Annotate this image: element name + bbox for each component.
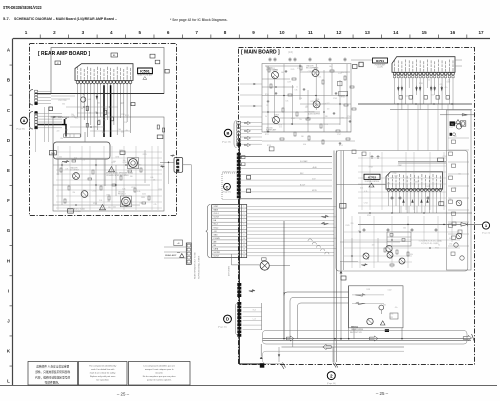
- svg-text:C712: C712: [364, 202, 368, 204]
- svg-text:47u: 47u: [395, 307, 398, 309]
- svg-text:4: 4: [244, 217, 245, 219]
- transistor spec labels rear: [70, 167, 126, 196]
- junction dots on bundle: [87, 93, 121, 94]
- connector CN709 (black pins): [237, 302, 241, 337]
- relay RY701 drive circuit: [348, 286, 403, 332]
- svg-text:10k: 10k: [454, 188, 457, 190]
- warning triangle small: [180, 254, 184, 258]
- svg-text:0.01: 0.01: [454, 136, 457, 138]
- jumper label JW8: [68, 209, 74, 213]
- junction dots amp section: [267, 65, 347, 124]
- svg-text:[ MAIN BOARD ]: [ MAIN BOARD ]: [241, 50, 280, 56]
- label (Page 26) under node B: [222, 142, 231, 144]
- svg-text:330: 330: [139, 164, 142, 166]
- wires in center section: [344, 152, 460, 268]
- svg-text:330: 330: [105, 109, 108, 111]
- open arrow on bottom bus 2: [286, 336, 293, 341]
- svg-text:C741: C741: [58, 100, 62, 102]
- svg-text:22k: 22k: [72, 192, 75, 194]
- svg-text:0.022: 0.022: [338, 73, 342, 75]
- svg-text:STBY: STBY: [214, 206, 219, 208]
- svg-text:6.8k: 6.8k: [383, 304, 386, 306]
- svg-text:22k: 22k: [266, 105, 269, 107]
- svg-text:2.2k: 2.2k: [124, 122, 127, 124]
- diode D704 on H4: [461, 223, 468, 227]
- svg-text:6.8k: 6.8k: [303, 144, 306, 146]
- bus lines above IC702: [398, 162, 446, 164]
- transistor Q701: [272, 70, 279, 79]
- svg-text:1k: 1k: [296, 87, 298, 89]
- electrolytic capacitors under IC701: [397, 86, 443, 92]
- wire: rear amp feed lines: [164, 247, 186, 258]
- svg-text:8: 8: [244, 231, 245, 233]
- signal arrow on bus 1: [321, 215, 328, 218]
- svg-text:代替，维修时请按规定型号的: 代替，维修时请按规定型号的: [35, 376, 70, 380]
- svg-text:7: 7: [195, 30, 198, 35]
- jumper label JW11: [150, 54, 155, 58]
- svg-text:REC OUT 12V: REC OUT 12V: [350, 332, 363, 334]
- value labels rear amp lower: [65, 157, 156, 209]
- wire mesh rear amp lower: [56, 146, 162, 210]
- svg-text:100: 100: [65, 130, 68, 132]
- safety note box (French): [129, 362, 191, 386]
- transistor Q714: [399, 258, 405, 264]
- IC701 reference label box: [373, 58, 388, 69]
- svg-text:100: 100: [98, 119, 101, 121]
- wire relay to bottom bus: [354, 328, 402, 339]
- bottom section strip 1: [263, 331, 468, 345]
- net labels on upper lines: [300, 160, 318, 192]
- svg-text:L: L: [7, 379, 10, 384]
- transistor Q713: [387, 252, 393, 258]
- black pin mark: [450, 133, 456, 136]
- note text 2: [67, 209, 85, 214]
- IC501 reference label box: [137, 68, 153, 79]
- svg-text:5: 5: [138, 30, 141, 35]
- svg-text:560: 560: [118, 129, 121, 131]
- resistors under IC701: [399, 96, 449, 100]
- main board center section outline: [336, 151, 468, 272]
- open arrow crossing right border: [463, 334, 474, 342]
- jumper box between sections: [341, 276, 346, 280]
- jumper label JW3: [49, 151, 56, 155]
- wire bus from CN701 to center: [247, 206, 337, 256]
- label (Page 27) under node C: [223, 191, 232, 193]
- junction dots on bottom bus: [283, 338, 402, 339]
- system control IC701 body with pins: [392, 57, 455, 78]
- svg-text:E: E: [7, 168, 10, 173]
- MAIN BOARD label: [241, 50, 293, 56]
- svg-text:Ne les remplacer que par une p: Ne les remplacer que par une pièce: [143, 375, 177, 378]
- svg-text:(1/4): (1/4): [288, 51, 293, 54]
- REAR AMP BOARD label: [38, 51, 91, 57]
- transistor Q705: [313, 99, 320, 108]
- transistor Q712: [363, 253, 369, 259]
- svg-text:Les composants identifiés par: Les composants identifiés par une: [143, 365, 175, 368]
- svg-text:R761: R761: [107, 194, 111, 196]
- decoupling caps at section top: [268, 58, 346, 62]
- svg-text:2: 2: [53, 30, 56, 35]
- connector CN708 (black pins): [237, 283, 241, 297]
- REAR AMP BOARD dash-dot border: [30, 44, 177, 216]
- svg-text:ST-12: ST-12: [214, 227, 219, 229]
- svg-text:0.01: 0.01: [139, 202, 142, 204]
- svg-text:C733: C733: [394, 176, 398, 178]
- jumper label JW9: [438, 158, 444, 162]
- node 1 (to page 41) at right border: [482, 222, 489, 229]
- svg-text:The components identified by: The components identified by: [89, 365, 117, 368]
- svg-text:560: 560: [403, 228, 406, 230]
- wires in rear amp lower section: [53, 150, 164, 205]
- svg-text:2SC2320: 2SC2320: [266, 128, 273, 130]
- svg-text:C707: C707: [337, 134, 341, 136]
- svg-text:3: 3: [82, 30, 85, 35]
- svg-text:G: G: [7, 228, 11, 233]
- node C (to page 27): [224, 183, 231, 190]
- open arrow on bottom bus 1: [369, 336, 377, 341]
- svg-text:C741: C741: [92, 191, 96, 193]
- dotted selection box: [222, 170, 241, 199]
- bus line H2 under IC701: [390, 109, 472, 111]
- svg-text:0.022: 0.022: [142, 194, 146, 196]
- value labels in amp section: [265, 66, 351, 147]
- svg-text:10: 10: [279, 30, 285, 35]
- svg-text:1k: 1k: [428, 79, 430, 81]
- svg-text:DATA: DATA: [214, 248, 219, 251]
- jumper label JW12: [155, 60, 160, 64]
- svg-text:1/2W: 1/2W: [366, 289, 370, 291]
- svg-text:DC DETECT: DC DETECT: [70, 170, 79, 172]
- warning triangle by IC702: [369, 183, 374, 187]
- connector CN701 pin table: [206, 205, 247, 258]
- resistor R518: [105, 111, 107, 115]
- svg-text:C733: C733: [158, 189, 162, 191]
- svg-text:10k: 10k: [80, 108, 83, 110]
- connector CN510 vertical: [186, 243, 191, 264]
- svg-text:(Page 41): (Page 41): [482, 233, 491, 235]
- svg-text:100: 100: [123, 160, 126, 162]
- svg-text:C712: C712: [393, 173, 397, 175]
- svg-text:+B AU: +B AU: [312, 166, 318, 169]
- down arrow at x261: [260, 344, 263, 359]
- svg-text:– 25 –: – 25 –: [117, 392, 130, 397]
- wires down from connectors: [35, 107, 48, 152]
- safety note box (English): [78, 362, 127, 386]
- svg-text:6.8k: 6.8k: [137, 191, 140, 193]
- svg-text:R708: R708: [278, 124, 282, 126]
- svg-text:B-OUT: B-OUT: [300, 184, 305, 186]
- wire: thick power trace: [38, 125, 67, 137]
- resistor R532: [163, 128, 165, 132]
- svg-text:0.022: 0.022: [326, 103, 330, 105]
- resistor R722 right of dotted box: [247, 189, 251, 193]
- transistor Q707: [273, 115, 280, 124]
- label (Page 36): [16, 129, 25, 131]
- svg-text:15: 15: [243, 256, 245, 258]
- svg-text:2.2k: 2.2k: [99, 200, 102, 202]
- MAIN BOARD dash-dot border: [239, 48, 475, 365]
- svg-text:IC702: IC702: [368, 175, 377, 179]
- svg-text:220: 220: [57, 131, 60, 133]
- capacitors mid center: [363, 228, 438, 232]
- safety note box (Chinese): [28, 362, 78, 386]
- svg-text:H: H: [7, 258, 10, 263]
- svg-text:(Page 27): (Page 27): [223, 191, 232, 193]
- svg-text:R745: R745: [123, 162, 127, 164]
- svg-text:17: 17: [478, 30, 484, 35]
- svg-text:10k: 10k: [299, 119, 302, 121]
- svg-text:4.7k: 4.7k: [459, 202, 462, 204]
- svg-text:S-OUT: S-OUT: [214, 256, 220, 258]
- svg-text:C733: C733: [115, 157, 119, 159]
- right regulator column outline: [447, 110, 472, 270]
- jumper label JW13: [165, 69, 169, 73]
- svg-text:3: 3: [244, 213, 245, 215]
- svg-text:220: 220: [308, 117, 311, 119]
- svg-text:0.01: 0.01: [88, 99, 91, 101]
- vertical bus pair x335-337: [334, 151, 344, 363]
- svg-text:7: 7: [244, 227, 245, 229]
- svg-text:L-ch: L-ch: [253, 318, 256, 320]
- node B (to page 26): [224, 129, 231, 136]
- svg-text:marque 0 sont critiques pour l: marque 0 sont critiques pour la: [145, 368, 174, 371]
- svg-text:IC501: IC501: [140, 70, 150, 74]
- warning triangle in column: [456, 120, 461, 124]
- svg-text:C703: C703: [333, 98, 337, 100]
- svg-text:portant le numéro spécifié.: portant le numéro spécifié.: [147, 379, 172, 382]
- svg-text:A: A: [23, 119, 26, 123]
- connector CN502 (rear speaker R): [30, 112, 38, 130]
- signal arrow right: [249, 290, 255, 292]
- svg-text:330: 330: [130, 176, 133, 178]
- note: see page 42: [170, 18, 228, 22]
- svg-text:1: 1: [25, 30, 28, 35]
- value labels relay area: [366, 289, 397, 319]
- page number left: [117, 392, 130, 397]
- svg-text:R745: R745: [125, 115, 129, 117]
- node D (to page 41): [224, 315, 232, 323]
- jumper label JW2: [55, 61, 61, 65]
- svg-text:10k: 10k: [329, 66, 332, 68]
- title: section heading: [3, 16, 118, 21]
- svg-text:12: 12: [243, 245, 245, 247]
- rear amp inner board outline (upper): [51, 48, 164, 94]
- svg-text:4.7k: 4.7k: [154, 204, 157, 206]
- svg-text:R745: R745: [367, 215, 371, 217]
- svg-text:0.022: 0.022: [431, 88, 435, 90]
- svg-text:4.7k: 4.7k: [364, 191, 367, 193]
- svg-text:R715: R715: [339, 145, 343, 147]
- value labels amp section extra: [271, 68, 344, 129]
- wire: bus corner to connector: [239, 363, 262, 365]
- svg-text:R761: R761: [341, 96, 345, 98]
- svg-text:C733: C733: [389, 314, 393, 316]
- value labels extra 2: [266, 71, 347, 121]
- svg-text:S-STBY: S-STBY: [214, 252, 221, 254]
- svg-text:10: 10: [243, 238, 245, 240]
- svg-text:1/2W: 1/2W: [446, 81, 450, 83]
- label +B POWER box: [174, 240, 183, 246]
- bus line H1 under IC701: [358, 103, 472, 104]
- svg-text:部件。只能用原装同号码部件: 部件。只能用原装同号码部件: [35, 370, 70, 374]
- svg-text:R708: R708: [325, 124, 329, 126]
- svg-text:3.3k: 3.3k: [74, 157, 77, 159]
- label (Page 41) right: [482, 233, 491, 235]
- svg-text:22k: 22k: [448, 80, 451, 82]
- resistor R520: [111, 117, 113, 121]
- value labels extra 1: [60, 99, 128, 140]
- svg-text:15: 15: [422, 30, 428, 35]
- note text IC702 supply: [419, 240, 442, 246]
- connector CN501 (rear speaker L): [30, 90, 38, 106]
- svg-text:0.01: 0.01: [75, 118, 78, 120]
- svg-text:6.8k: 6.8k: [122, 188, 125, 190]
- svg-text:ber specified.: ber specified.: [97, 379, 110, 382]
- svg-text:R745: R745: [141, 197, 145, 199]
- svg-text:4.7k: 4.7k: [439, 84, 442, 86]
- svg-text:5-7.: 5-7.: [3, 16, 10, 21]
- svg-text:22k: 22k: [60, 138, 63, 140]
- transistor Q718: [456, 233, 462, 239]
- wires below IC701 buses: [398, 104, 448, 151]
- down arrow on x341: [340, 271, 343, 274]
- svg-text:2.2k: 2.2k: [299, 98, 302, 100]
- resistors and caps rear amp lower: [60, 160, 150, 206]
- svg-text:100: 100: [281, 72, 284, 74]
- svg-text:SO-2: SO-2: [214, 224, 218, 226]
- svg-text:1/2W: 1/2W: [93, 126, 97, 128]
- svg-text:SL-REAR: SL-REAR: [300, 160, 308, 163]
- svg-text:I: I: [8, 288, 9, 293]
- svg-text:22k: 22k: [306, 106, 309, 108]
- svg-text:D: D: [226, 317, 229, 322]
- svg-text:这种部件 人身安全非常重要: 这种部件 人身安全非常重要: [36, 365, 69, 369]
- svg-text:330: 330: [458, 173, 461, 175]
- svg-text:0.01: 0.01: [366, 259, 369, 261]
- svg-text:2SC2320: 2SC2320: [308, 112, 315, 114]
- svg-text:R708: R708: [310, 101, 314, 103]
- diode arrow D502: [161, 166, 165, 168]
- svg-text:47u: 47u: [445, 87, 448, 89]
- svg-text:SYSTEM CONTROL: SYSTEM CONTROL: [365, 181, 380, 183]
- svg-text:100: 100: [271, 117, 274, 119]
- svg-text:22k: 22k: [103, 120, 106, 122]
- svg-text:220: 220: [83, 190, 86, 192]
- value labels near IC501 bundle: [57, 100, 129, 133]
- svg-text:1k: 1k: [438, 245, 440, 247]
- signal arrows at left pins: [245, 121, 251, 146]
- svg-text:C705: C705: [347, 116, 351, 118]
- resistor R516: [98, 121, 100, 125]
- regulator Q715: [460, 121, 465, 126]
- svg-text:1/2W: 1/2W: [287, 82, 291, 84]
- svg-text:REAR AMP: REAR AMP: [165, 254, 177, 257]
- label (Page 30): [327, 383, 336, 385]
- svg-text:560: 560: [301, 136, 304, 138]
- diode arrow D501: [171, 155, 175, 157]
- connector CN706 pin column: [234, 121, 262, 199]
- svg-text:4: 4: [110, 30, 113, 35]
- svg-text:1: 1: [244, 206, 245, 208]
- svg-text:Q707: Q707: [274, 115, 278, 117]
- svg-text:R745: R745: [143, 154, 147, 156]
- capacitor C514 polarized arrow: [96, 95, 98, 101]
- svg-text:零部件更换。: 零部件更换。: [45, 381, 61, 385]
- svg-text:VIDEO BUFFER: VIDEO BUFFER: [266, 70, 279, 72]
- svg-text:HEAD PHONE AMP: HEAD PHONE AMP: [137, 73, 153, 76]
- svg-text:S-OUT: S-OUT: [214, 217, 220, 219]
- svg-text:10k: 10k: [86, 126, 89, 128]
- resistors bottom cluster: [384, 248, 409, 266]
- svg-text:2SC2320: 2SC2320: [266, 68, 273, 70]
- svg-text:SCHEMATIC DIAGRAM – MAIN Boa: SCHEMATIC DIAGRAM – MAIN Board (1/4)/REA…: [14, 16, 118, 21]
- wire loop (rounded bus): [54, 142, 111, 159]
- power transistor Q502: [120, 196, 131, 207]
- svg-text:11: 11: [308, 30, 313, 35]
- test point TP701: [450, 121, 456, 126]
- left arrow on return line: [323, 344, 331, 349]
- jumper box JW1: [49, 107, 53, 111]
- svg-text:0.022: 0.022: [388, 289, 392, 291]
- jumper label JW5: [120, 151, 125, 154]
- svg-text:0.01: 0.01: [431, 95, 434, 97]
- svg-text:0.022: 0.022: [405, 96, 409, 98]
- svg-text:R708: R708: [63, 100, 67, 102]
- label: 100 ohm 1/2W with arrow: [51, 116, 69, 119]
- svg-text:14: 14: [243, 252, 245, 254]
- svg-text:C741: C741: [323, 103, 327, 105]
- svg-text:13: 13: [365, 30, 371, 35]
- op-amp IC501 body with 17 pins: [75, 64, 133, 85]
- junction hatch at border x284: [281, 363, 286, 370]
- svg-text:– 25 –: – 25 –: [376, 391, 389, 396]
- vertical wire x348.7: [348, 286, 350, 339]
- wire bundle from IC501 pins: [78, 85, 131, 137]
- svg-text:C: C: [226, 185, 229, 189]
- node E (circled 2, to page 30): [327, 372, 335, 380]
- connector CN503 board-to-board: [174, 158, 183, 173]
- svg-text:C712: C712: [443, 156, 447, 158]
- svg-text:560: 560: [97, 103, 100, 105]
- components and wires in amp section: [262, 64, 356, 145]
- warning triangle mark 1: [109, 167, 115, 173]
- jumper label JW10: [439, 202, 444, 206]
- wire y114.8 to border: [440, 114, 474, 116]
- caps under IC702: [391, 196, 430, 200]
- svg-text:220: 220: [341, 117, 344, 119]
- svg-text:(Page 41): (Page 41): [218, 327, 227, 329]
- svg-text:(L-CH): (L-CH): [377, 67, 382, 69]
- junction dots bundle: [65, 106, 110, 131]
- wires in center section upper: [340, 238, 400, 266]
- black pin top CN502: [35, 111, 38, 113]
- svg-text:R745: R745: [119, 150, 123, 152]
- svg-text:C733: C733: [449, 127, 453, 129]
- value labels under IC701: [405, 79, 451, 97]
- wire: bottom double bus: [263, 339, 472, 341]
- column components: [448, 138, 469, 246]
- svg-text:R-ch: R-ch: [253, 310, 256, 312]
- svg-text:REC BUFFER: REC BUFFER: [306, 68, 317, 70]
- label (B POWER) vertical: [229, 265, 231, 276]
- svg-text:R745: R745: [291, 69, 295, 71]
- wires into amp section from border: [240, 83, 262, 117]
- svg-text:R708: R708: [369, 167, 373, 169]
- wire from CN503 to lower connector: [160, 162, 191, 243]
- label REC OUT: [350, 332, 363, 334]
- wire bus: upper signal lines: [240, 147, 332, 199]
- diode arrows under IC702: [402, 199, 428, 203]
